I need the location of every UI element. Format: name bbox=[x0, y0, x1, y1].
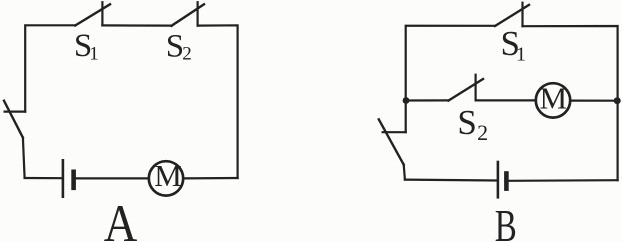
switch S3 (left side) stub bbox=[383, 131, 406, 133]
wire: S2 contact to motor bbox=[476, 99, 536, 101]
svg-text:2: 2 bbox=[182, 44, 192, 65]
switch S2 blade bbox=[172, 4, 205, 26]
battery GB2 long plate bbox=[497, 162, 500, 197]
svg-text:1: 1 bbox=[89, 44, 99, 65]
battery GB1 long plate bbox=[62, 160, 65, 196]
motor M1 bbox=[149, 161, 183, 195]
svg-text:S: S bbox=[457, 103, 476, 142]
svg-text:2: 2 bbox=[477, 120, 488, 145]
svg-text:A: A bbox=[104, 195, 138, 242]
wire: S1 contact to S2 pivot bbox=[102, 24, 171, 26]
svg-text:B: B bbox=[495, 201, 517, 242]
switch S3 blade bbox=[4, 101, 23, 138]
node: left junction dot bbox=[403, 97, 410, 104]
node: right junction dot bbox=[614, 97, 621, 104]
wire: motor to bottom-right corner bbox=[184, 177, 238, 180]
svg-text:M: M bbox=[540, 81, 568, 116]
switch S2 blade bbox=[448, 79, 483, 101]
switch S1 fixed contact stub bbox=[101, 2, 103, 25]
svg-text:M: M bbox=[154, 158, 182, 193]
wire: A top-left corner, left upper vertical and top run to S1 pivot bbox=[25, 25, 75, 111]
wire: S1 contact to top-right corner and right vertical bbox=[523, 26, 618, 180]
svg-text:1: 1 bbox=[516, 43, 526, 65]
battery GB1 short plate bbox=[71, 172, 76, 188]
switch S2 fixed contact stub bbox=[475, 75, 477, 101]
motor M2 bbox=[536, 83, 570, 117]
switch S1 blade bbox=[75, 4, 110, 25]
switch S1 blade bbox=[495, 5, 529, 26]
wire: lower-left vertical bbox=[23, 138, 25, 178]
battery GB2 short plate bbox=[504, 174, 509, 189]
switch S2 fixed contact stub bbox=[197, 2, 199, 25]
wire: motor to right vertical bbox=[571, 99, 618, 101]
wire: bottom run to battery bbox=[25, 177, 62, 179]
wire: bottom run to battery bbox=[405, 179, 497, 182]
switch S3 (left side) stub bbox=[5, 110, 26, 112]
wire: middle branch to S2 pivot bbox=[406, 99, 448, 101]
wire: S2 contact to top-right corner and right vertical bbox=[198, 25, 238, 178]
wire: B left vertical upper and top run to S1 pivot bbox=[406, 26, 495, 133]
wire: lower-left vertical of B bbox=[404, 165, 405, 180]
wire: battery to motor bbox=[76, 177, 148, 179]
wire: battery to bottom-right corner bbox=[509, 179, 618, 182]
switch S1 fixed contact stub bbox=[521, 3, 523, 27]
switch S3 blade bbox=[379, 119, 404, 164]
